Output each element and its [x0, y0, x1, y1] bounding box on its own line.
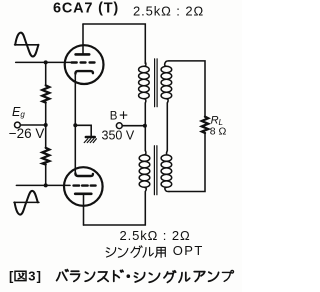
transformer OPT2 primary winding — [139, 151, 150, 195]
tube V2 envelope circle — [64, 167, 103, 206]
node junction dot cathode/ground — [73, 123, 77, 127]
svg-text:8 Ω: 8 Ω — [210, 126, 227, 138]
svg-text:B: B — [110, 110, 118, 122]
terminal Eg circle — [15, 122, 21, 128]
wire B+ terminal to primary rail — [123, 125, 145, 127]
terminal B+ circle — [116, 123, 122, 129]
caption kanji zu (figure) — [15, 271, 26, 280]
wire grid lower (input to V2 grid) — [16, 184, 70, 186]
label single-use OPT (katakana singuru-you OPT) — [106, 246, 165, 258]
node junction dot upper grid — [44, 60, 48, 64]
transformer OPT1 primary winding — [139, 62, 150, 103]
tube V2 plate lead — [83, 194, 85, 225]
signal source sine 2 (input, inverted phase) — [14, 191, 39, 215]
wire OPT1 secondary top to RL — [169, 61, 205, 117]
tube V1 envelope circle — [65, 45, 104, 84]
wire ground stub — [75, 125, 91, 135]
wire left rail lower segment — [45, 165, 47, 186]
resistor RL — [202, 117, 208, 133]
svg-text:]: ] — [37, 269, 41, 284]
svg-text:2.5kΩ : 2Ω: 2.5kΩ : 2Ω — [120, 228, 191, 243]
transformer OPT2 core — [154, 146, 157, 195]
tube V1 grid dashes — [72, 61, 95, 63]
svg-text:3: 3 — [28, 269, 35, 284]
transformer OPT1 core — [155, 59, 158, 107]
tube V1 plate lead — [82, 24, 84, 53]
svg-text:2.5kΩ : 2Ω: 2.5kΩ : 2Ω — [133, 3, 204, 18]
svg-text:[: [ — [9, 269, 14, 284]
wire Eg terminal to rail — [21, 124, 46, 126]
svg-text:−26 V: −26 V — [9, 126, 45, 141]
caption title katakana "balanced single amp" — [57, 270, 234, 283]
ground symbol — [84, 137, 96, 143]
wire secondary interconnect — [166, 103, 168, 151]
wire primary interconnect (B+ rail) — [144, 103, 146, 151]
svg-text:350 V: 350 V — [102, 128, 135, 142]
wire left rail middle segment — [45, 103, 47, 148]
wire V1 plate to OPT1 primary top — [83, 24, 145, 64]
resistor grid bias lower — [42, 148, 49, 165]
tube V1 plate bar — [76, 53, 90, 56]
wire RL bottom to OPT2 secondary — [169, 133, 205, 192]
wire left rail upper segment — [45, 62, 47, 85]
transformer OPT2 secondary winding — [161, 151, 172, 192]
node junction dot B+ — [143, 124, 147, 128]
signal source sine 1 (input, upper phase) — [15, 33, 39, 57]
node Eg junction dot — [44, 123, 48, 127]
node junction dot lower grid — [44, 183, 48, 187]
tube V2 plate bar — [75, 193, 91, 196]
wire OPT2 primary bottom to V2 plate — [84, 194, 146, 225]
svg-text:6CA7 (T): 6CA7 (T) — [53, 0, 119, 16]
wire cathode rail (V1 cathode to V2 cathode) — [74, 74, 76, 173]
svg-text:+: + — [119, 107, 128, 124]
wire grid upper (input to V1 grid) — [16, 61, 70, 63]
tube V2 grid dashes — [74, 184, 96, 186]
transformer OPT1 secondary winding — [161, 61, 172, 103]
tube V2 cathode — [75, 173, 93, 176]
tube V1 cathode — [75, 71, 93, 74]
svg-text:OPT: OPT — [173, 243, 204, 258]
resistor grid bias upper — [42, 85, 49, 102]
